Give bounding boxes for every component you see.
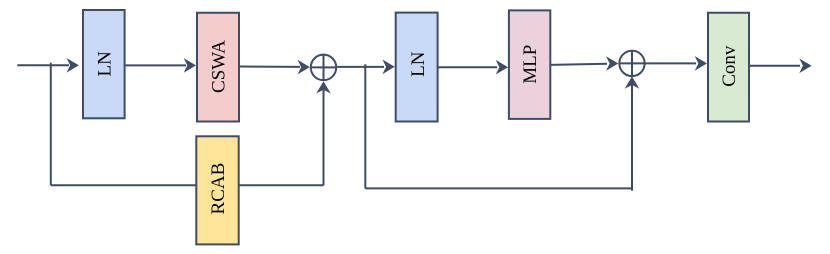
block LN1 xyxy=(83,10,125,118)
adder node 1 (circle-plus) xyxy=(311,55,337,81)
svg-text:MLP: MLP xyxy=(520,45,541,84)
wire Conv to output xyxy=(750,65,800,67)
block RCAB xyxy=(196,136,238,244)
wire input to LN1 xyxy=(17,64,69,66)
wire skip1 horizontal through RCAB xyxy=(51,184,324,186)
arrowhead output xyxy=(799,59,811,74)
arrowhead into adder2 left xyxy=(606,56,618,71)
wire junction drop mid xyxy=(364,64,366,188)
svg-text:RCAB: RCAB xyxy=(208,163,229,215)
wire adder2 to Conv xyxy=(645,62,696,64)
arrowhead into adder1 left xyxy=(298,60,310,75)
arrowhead into adder1 bottom xyxy=(316,81,331,93)
block LN2 xyxy=(396,13,438,122)
arrowhead into Conv xyxy=(695,56,707,71)
svg-text:LN: LN xyxy=(94,51,115,77)
adder node 2 (circle-plus) xyxy=(619,51,644,76)
wire MLP to adder2 xyxy=(550,64,607,65)
arrowhead into adder2 bottom xyxy=(625,76,640,88)
wire skip2 riser to adder2 xyxy=(631,81,633,191)
block Conv xyxy=(708,13,749,122)
block CSWA xyxy=(197,13,239,122)
wire adder1 to LN2 xyxy=(337,66,384,68)
svg-text:CSWA: CSWA xyxy=(208,40,229,93)
svg-text:LN: LN xyxy=(408,51,429,77)
wire junction drop left xyxy=(50,63,52,186)
wire CSWA to adder1 xyxy=(239,66,300,68)
wire LN1 to CSWA xyxy=(125,64,186,66)
svg-text:Conv: Conv xyxy=(719,45,740,87)
block MLP xyxy=(509,10,550,119)
wire skip1 riser to adder1 xyxy=(323,84,325,185)
arrowhead into MLP xyxy=(496,60,508,75)
arrowhead into CSWA xyxy=(184,58,196,73)
wire skip2 horizontal xyxy=(365,187,632,189)
wire LN2 to MLP xyxy=(438,66,497,68)
arrowhead into LN1 xyxy=(67,58,79,73)
arrowhead into LN2 xyxy=(382,60,394,75)
